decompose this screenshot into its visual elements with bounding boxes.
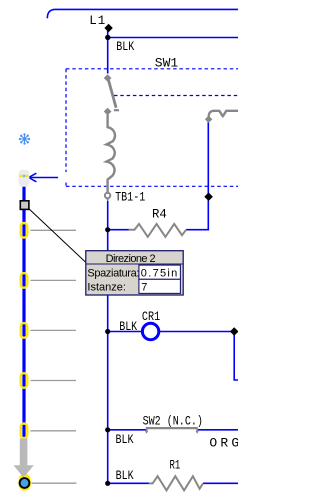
svg-text:Spaziatura:: Spaziatura: — [87, 267, 139, 279]
svg-text:SW2 (N.C.): SW2 (N.C.) — [143, 414, 203, 429]
svg-text:R1: R1 — [170, 459, 181, 473]
svg-text:BLK: BLK — [116, 40, 134, 55]
svg-text:L1: L1 — [89, 14, 106, 28]
svg-text:BLK: BLK — [116, 469, 134, 484]
svg-text:BLK: BLK — [116, 433, 134, 448]
svg-text:Direzione 2: Direzione 2 — [106, 253, 156, 265]
svg-text:TB1-1: TB1-1 — [115, 190, 145, 205]
svg-text:ORG: ORG — [209, 435, 238, 450]
svg-text:BLK: BLK — [119, 320, 137, 335]
svg-text:0.75in: 0.75in — [141, 267, 178, 279]
svg-text:Istanze:: Istanze: — [87, 282, 126, 294]
svg-text:CR1: CR1 — [142, 309, 160, 325]
svg-text:R4: R4 — [152, 206, 167, 221]
svg-text:SW1: SW1 — [155, 56, 179, 71]
svg-text:7: 7 — [141, 281, 147, 293]
